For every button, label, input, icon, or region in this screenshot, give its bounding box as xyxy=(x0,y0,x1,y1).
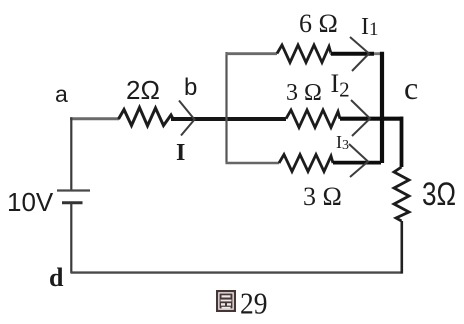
svg-text:c: c xyxy=(404,70,418,106)
svg-text:I: I xyxy=(176,140,185,166)
svg-text:3 Ω: 3 Ω xyxy=(286,80,322,106)
resistor R4 3Ω bottom zigzag xyxy=(279,155,333,172)
svg-text:3 Ω: 3 Ω xyxy=(303,182,342,211)
svg-text:3Ω: 3Ω xyxy=(422,176,456,212)
resistor R3 3Ω middle zigzag xyxy=(286,110,340,128)
resistor R5 3Ω vertical zigzag xyxy=(394,167,409,221)
wire battery to d xyxy=(70,203,72,273)
current I2 arrow xyxy=(351,100,370,136)
wire a to R1 xyxy=(70,117,119,120)
parallel block right vertical wire xyxy=(380,52,384,163)
top branch thick segment before arrow xyxy=(331,52,374,56)
bottom branch wire right segment xyxy=(333,161,381,165)
wire main horizontal b to middle resistor xyxy=(171,117,286,121)
wire middle resistor to c junction xyxy=(340,117,403,121)
resistor R1 2Ω zigzag xyxy=(119,108,174,126)
wire right vertical c down to R5 xyxy=(400,117,404,167)
wire R5 to bottom xyxy=(400,221,403,274)
battery V1 long plate xyxy=(57,189,90,191)
svg-text:6 Ω: 6 Ω xyxy=(299,9,338,38)
svg-text:b: b xyxy=(184,74,197,101)
resistor R2 6Ω zigzag xyxy=(277,45,331,63)
current I arrow at b xyxy=(179,101,195,136)
wire left vertical a to battery xyxy=(70,117,72,189)
figure caption glyph 圖 (drawn) xyxy=(216,290,236,312)
parallel block left vertical wire xyxy=(225,52,227,164)
svg-text:29: 29 xyxy=(240,286,268,321)
svg-text:a: a xyxy=(55,81,68,107)
top branch wire right segment xyxy=(330,52,382,55)
top branch wire left segment xyxy=(226,52,278,55)
bottom branch wire left segment xyxy=(226,162,280,164)
battery V1 short plate xyxy=(62,201,83,204)
wire bottom d to right xyxy=(71,271,403,273)
svg-text:2Ω: 2Ω xyxy=(126,75,160,105)
current I1 arrow xyxy=(350,37,369,71)
svg-text:10V: 10V xyxy=(7,187,54,217)
current I3 arrow xyxy=(349,144,368,177)
svg-text:d: d xyxy=(49,263,64,292)
